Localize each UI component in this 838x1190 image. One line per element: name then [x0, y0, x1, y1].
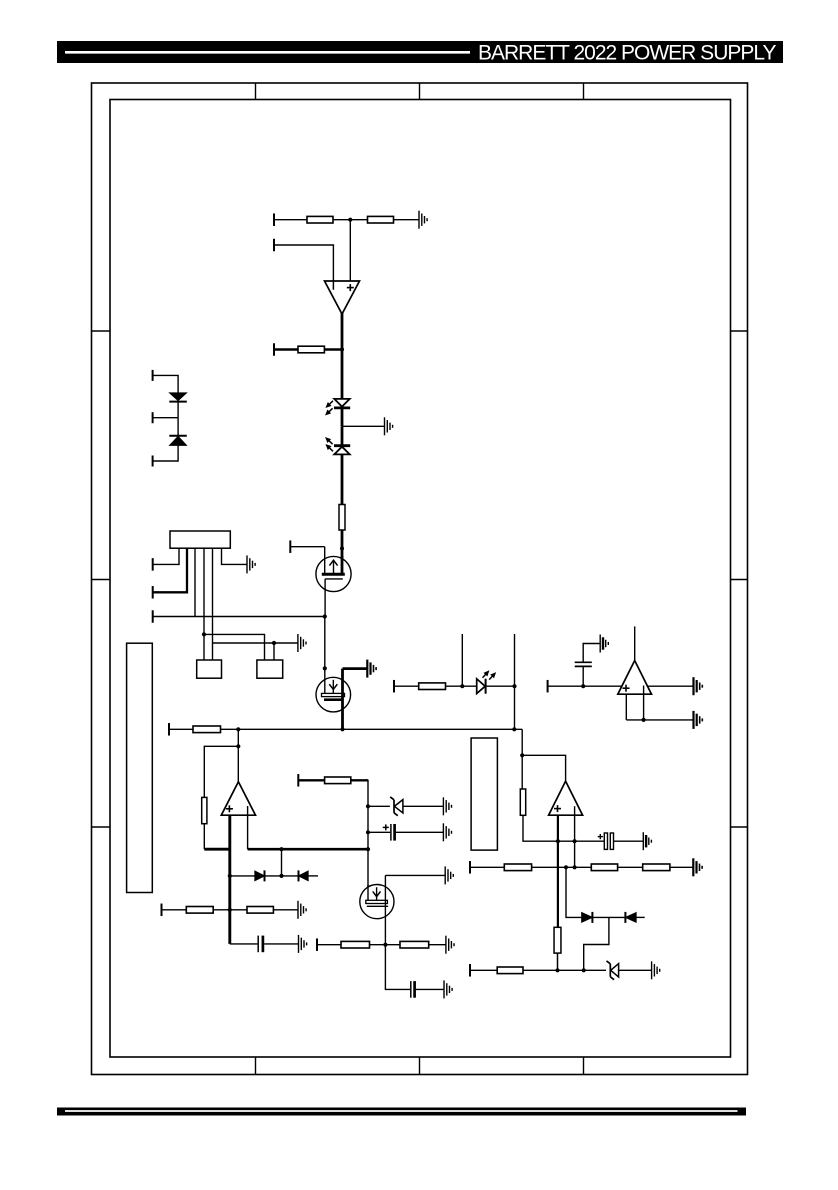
wire — [342, 425, 385, 427]
title bar — [57, 41, 783, 63]
resistor R5 — [193, 726, 221, 733]
pad E2 — [257, 660, 283, 678]
junction — [366, 830, 370, 834]
diode D10 — [169, 393, 187, 402]
op-amp U2 non-inverting input mark — [623, 687, 630, 689]
op-amp U3 non-inverting input mark — [226, 808, 233, 810]
junction — [512, 684, 516, 688]
junction — [383, 943, 387, 947]
op-amp U3 inverting input mark — [247, 806, 249, 849]
wire U2 output — [634, 626, 636, 660]
capacitor C2 — [391, 824, 395, 841]
wire — [394, 685, 419, 687]
wire — [368, 831, 390, 833]
junction — [460, 684, 464, 688]
wire — [324, 592, 326, 617]
wire stub — [514, 634, 516, 686]
wire — [470, 866, 504, 868]
wire — [385, 945, 410, 990]
diode D5 — [299, 870, 309, 881]
wire U4 plus — [557, 815, 559, 927]
capacitor C3 — [411, 981, 415, 998]
zener D9 — [390, 797, 403, 816]
wire — [230, 943, 258, 945]
junction — [366, 847, 370, 851]
zener D8 — [607, 961, 619, 980]
ground — [445, 866, 453, 884]
wire — [523, 969, 606, 971]
wire — [169, 728, 193, 730]
node IN1 pin — [273, 213, 275, 226]
ground — [694, 711, 703, 729]
resistor R10 — [325, 777, 351, 784]
op-amp U4 non-inverting input mark — [554, 808, 561, 810]
wire — [317, 944, 341, 946]
ground — [643, 832, 651, 850]
capacitor C4 — [575, 644, 601, 687]
wire — [341, 454, 344, 504]
wire stub — [636, 916, 645, 918]
op-amp U4 — [549, 781, 583, 815]
resistor R8 — [186, 907, 213, 914]
junction — [202, 632, 206, 636]
wire — [532, 866, 592, 868]
diode D11 — [169, 436, 187, 446]
node P1 pin — [152, 558, 154, 571]
wire — [290, 546, 324, 548]
node S1 pin — [152, 610, 154, 623]
wire J1 pin2 — [153, 548, 187, 592]
wire — [523, 815, 558, 841]
wire — [618, 866, 643, 868]
op-amp U4 inverting input mark — [574, 806, 576, 867]
capacitor C2 plus mark — [383, 826, 389, 828]
wire — [177, 402, 179, 418]
wire U3 plus rail — [228, 815, 231, 944]
wire — [446, 685, 477, 687]
ground — [446, 936, 454, 954]
wire — [486, 685, 515, 687]
node DB pin — [152, 412, 154, 423]
junction — [573, 839, 577, 843]
wire — [213, 909, 247, 911]
wire — [153, 445, 179, 461]
resistor R7 — [202, 797, 207, 823]
ground — [298, 634, 306, 652]
wire — [341, 530, 344, 574]
junction — [582, 968, 586, 972]
wire — [566, 867, 582, 917]
ground — [444, 980, 452, 998]
resistor R2 — [368, 216, 394, 223]
resistor R9 — [247, 907, 273, 914]
junction — [520, 753, 524, 757]
node V2 pin — [547, 680, 549, 693]
wire — [274, 245, 333, 281]
junction — [323, 666, 327, 670]
wire — [341, 426, 344, 445]
resistor R6 — [520, 789, 525, 815]
junction — [228, 874, 232, 878]
wire J1 pin6 — [222, 548, 248, 564]
wire — [204, 634, 265, 660]
wire J1 pin1 — [153, 548, 179, 564]
junction — [512, 727, 516, 731]
wire source rail — [153, 616, 325, 618]
node IN2 pin — [273, 239, 275, 252]
ground — [693, 858, 702, 876]
wire — [470, 969, 497, 971]
capacitor C5 — [604, 833, 613, 849]
junction — [228, 908, 232, 912]
junction — [555, 968, 559, 972]
junction — [581, 684, 585, 688]
wire — [274, 348, 298, 350]
ground — [367, 660, 376, 678]
border zone dividers — [92, 83, 748, 1075]
resistor R13 — [419, 683, 446, 690]
resistor R15 — [591, 864, 617, 871]
junction — [236, 744, 240, 748]
ground — [247, 555, 255, 573]
wire — [403, 805, 444, 807]
wire — [557, 953, 559, 970]
wire — [324, 348, 342, 350]
wire — [324, 617, 326, 678]
wire — [370, 944, 401, 946]
junction — [340, 347, 344, 351]
wire — [203, 824, 205, 850]
wire stub — [461, 634, 463, 686]
resistor R14 — [504, 864, 531, 871]
wire — [592, 916, 625, 918]
wire — [522, 729, 565, 781]
node B1 pin — [168, 723, 170, 736]
junction — [564, 865, 568, 869]
wire feedback — [204, 746, 238, 797]
wire — [237, 729, 239, 782]
resistor R18 — [497, 967, 523, 974]
wire — [204, 848, 230, 851]
node DC pin — [152, 456, 154, 467]
node F1 pin — [469, 861, 471, 874]
wire — [429, 944, 446, 946]
wire — [273, 643, 275, 660]
wire — [416, 988, 444, 990]
node DA pin — [152, 370, 154, 381]
junction — [272, 641, 276, 645]
wire main bus — [221, 728, 523, 730]
ground — [443, 823, 451, 841]
node F2 pin — [469, 964, 471, 977]
wire — [153, 417, 179, 419]
wire — [213, 642, 298, 644]
op-amp U1 — [325, 281, 360, 314]
junction — [348, 218, 352, 222]
op-amp U1 inverting input mark — [332, 281, 334, 290]
module A1 — [127, 643, 153, 892]
capacitor C5 plus mark — [598, 836, 603, 838]
wire — [230, 875, 255, 877]
wire — [153, 375, 179, 393]
diode D7 — [625, 912, 636, 923]
node T1 pin — [297, 774, 299, 787]
wire — [521, 755, 523, 789]
resistor R4 — [339, 505, 345, 531]
wire — [614, 840, 644, 842]
capacitor C1 — [258, 936, 263, 953]
wire — [333, 219, 368, 221]
resistor R3 — [298, 346, 324, 353]
wire — [264, 943, 298, 945]
junction — [642, 718, 646, 722]
wire — [308, 875, 318, 877]
wire — [281, 849, 283, 876]
transistor Q1 — [316, 547, 351, 592]
node G1 pin — [289, 540, 291, 553]
op-amp U3 — [221, 782, 255, 815]
transistor Q2 — [316, 669, 351, 730]
wire — [274, 219, 307, 221]
junction — [323, 614, 327, 618]
ground — [299, 935, 307, 953]
footer bar — [57, 1108, 746, 1116]
wire — [394, 219, 420, 221]
resistor R12 — [400, 941, 429, 948]
wire J1 pin4 — [203, 548, 205, 660]
junction — [279, 874, 283, 878]
wire — [514, 686, 516, 729]
junction — [556, 839, 560, 843]
wire — [396, 831, 444, 833]
wire — [248, 848, 368, 851]
wire — [162, 909, 187, 911]
op-amp U2 inverting input mark — [643, 686, 645, 720]
diode D6 — [582, 912, 593, 923]
diode D4 — [255, 870, 265, 881]
junction — [573, 865, 577, 869]
wire — [349, 220, 351, 281]
LED D1 — [326, 399, 350, 415]
sheet border inner — [110, 100, 731, 1058]
wire — [177, 418, 179, 436]
node L2 pin — [316, 938, 318, 951]
ground — [298, 901, 306, 919]
ground — [385, 417, 393, 435]
wire — [670, 866, 693, 868]
op-amp U2 — [618, 661, 652, 695]
junction — [340, 727, 344, 731]
svg-text:BARRETT 2022 POWER SUPPLY: BARRETT 2022 POWER SUPPLY — [478, 42, 776, 65]
wire J1 pin3 — [194, 548, 196, 616]
wire — [298, 779, 324, 781]
resistor R16 — [643, 864, 670, 871]
junction — [366, 804, 370, 808]
wire — [368, 805, 390, 807]
wire U1 output — [341, 313, 344, 399]
wire — [648, 685, 694, 687]
module A2 — [471, 738, 497, 850]
sheet border outer — [92, 83, 748, 1075]
ground — [652, 961, 660, 979]
wire — [558, 840, 604, 842]
wire — [625, 694, 627, 720]
wire — [619, 969, 652, 971]
node V1 pin — [393, 680, 395, 693]
resistor R17 — [554, 927, 561, 953]
wire — [265, 875, 299, 877]
junction — [340, 546, 344, 550]
wire J1 pin5 — [212, 548, 214, 660]
wire Q3 gate — [385, 874, 445, 876]
wire — [341, 408, 344, 426]
pad E1 — [197, 660, 222, 678]
resistor R1 — [307, 216, 333, 223]
transistor Q3 — [360, 875, 394, 944]
ground — [419, 211, 427, 229]
ground — [600, 635, 608, 653]
wire — [548, 685, 622, 687]
node L1 pin — [161, 904, 163, 917]
ground — [694, 677, 703, 695]
connector J1 — [170, 531, 230, 548]
resistor R11 — [341, 941, 370, 948]
wire — [584, 917, 609, 970]
node IN3 pin — [273, 343, 275, 356]
op-amp U1 non-inverting input mark — [347, 287, 354, 289]
wire Q2 gate — [343, 667, 368, 670]
junction — [236, 727, 240, 731]
wire — [626, 719, 693, 721]
LED D2 — [326, 438, 350, 455]
wire — [273, 909, 298, 911]
LED D3 — [477, 671, 496, 694]
junction — [279, 847, 283, 851]
ground — [443, 797, 451, 815]
wire — [351, 780, 368, 901]
node P2 pin — [152, 586, 154, 599]
